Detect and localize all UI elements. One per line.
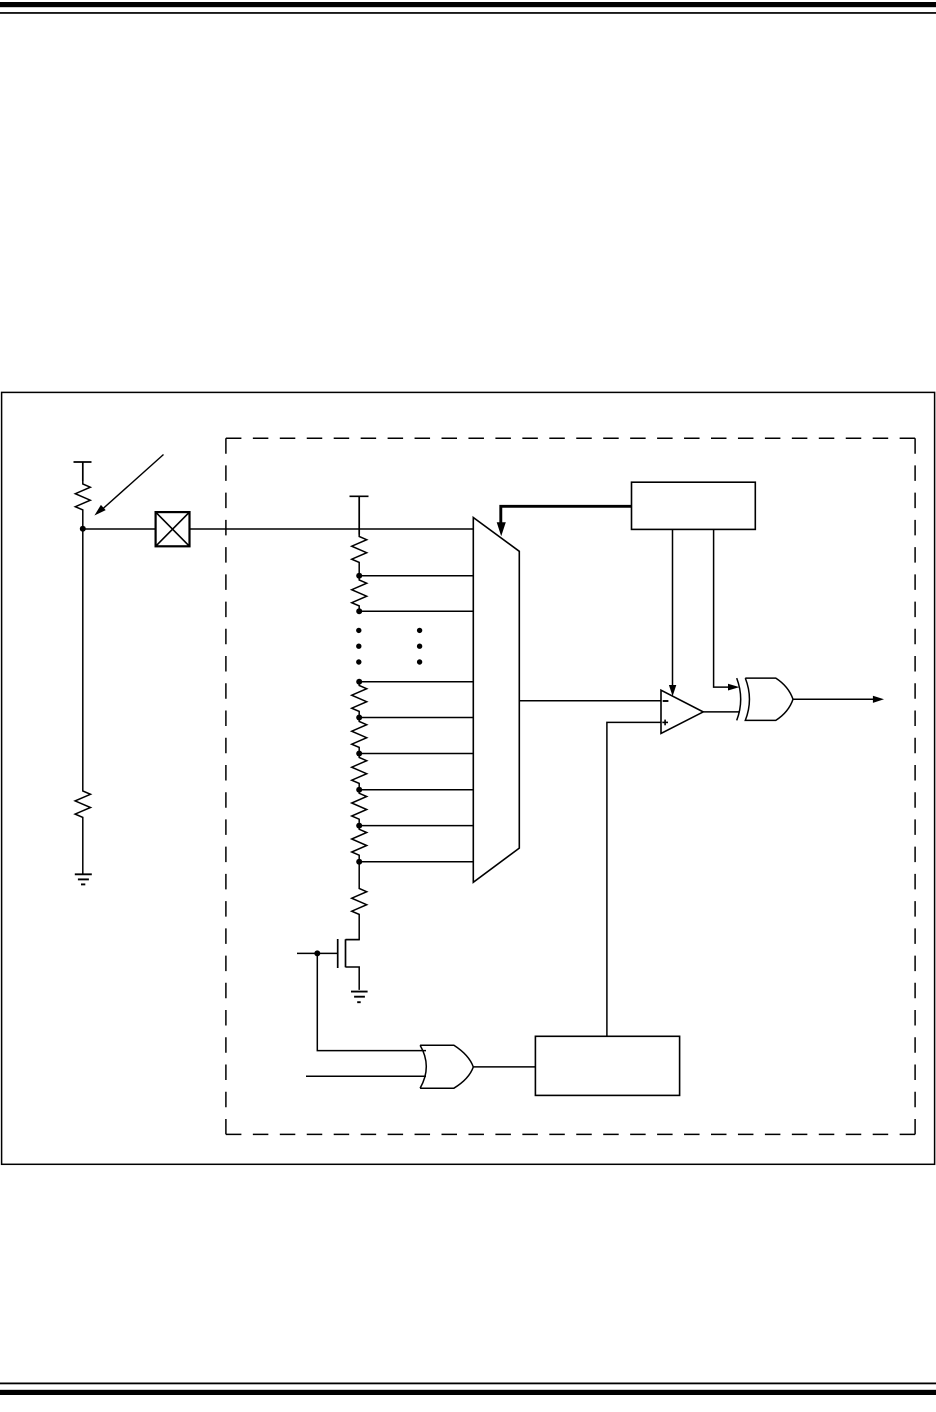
wire gate node down to or-gate input [317,953,426,1050]
or gate U5 body [420,1045,473,1088]
resistor R3 (ladder top 8R) [352,535,367,574]
figure outer border [2,392,935,1164]
annotation arrow pointing to node A [94,455,163,516]
wire tap 3 to mux [359,681,473,683]
pad X1 (I/O pin, crossed square) [156,512,190,546]
resistor R8 (ladder) [352,790,367,823]
wire R2 to ground [82,819,84,874]
node B (tap 1) [356,573,362,579]
node A (external pin junction) [80,526,86,532]
resistor R5 (ladder) [352,682,367,715]
node J (gate junction) [314,950,320,956]
wire tap 1 to mux [359,575,473,577]
resistor R1 (external pull-up) [75,481,90,511]
control register box U2 [632,482,756,529]
wire or output to enable box [473,1066,535,1068]
page footer thick rule [0,1390,936,1395]
wire tap 4 to mux [359,717,473,719]
wire U2 output 2 down and right to xor [714,529,729,687]
wire R1 to node A [82,511,84,529]
xor gate U4 input arc [737,678,741,720]
arrowhead select into mux [497,522,506,536]
wire tap 2 to mux [359,610,473,612]
resistor R4 (ladder) [352,579,367,609]
resistor R2 (external pull-down) [75,788,90,819]
mux select wire (thick) from control register [501,506,632,526]
arrowhead into comparator top [669,685,676,696]
minus sign label [663,700,669,702]
wire node A down to R2 [82,529,84,788]
wire tap 5 to mux [359,753,473,755]
terminal T1 (top-left supply stub) [74,462,92,481]
enable logic box U6 [535,1036,679,1095]
plus sign label [662,720,668,726]
wire R10 to transistor drain [346,916,360,940]
node C (tap 2) [356,608,362,614]
comparator U3 triangle [661,690,703,733]
ellipsis dots mux column [417,628,422,665]
wire xor output [793,698,873,700]
wire node A to pad [83,528,156,530]
ellipsis dots ladder column [356,628,361,665]
node I (tap 8, ladder bottom) [356,859,362,865]
page header thin rule [0,12,936,14]
mux U1 (analog multiplexer trapezoid) [473,518,519,883]
wire tap 8 to mux [359,861,473,863]
node D (tap 3) [356,679,362,685]
resistor R9 (ladder) [352,826,367,859]
resistor R6 (ladder) [352,718,367,751]
transistor Q1 (NMOS) [338,939,360,990]
ground GND1 (external) [75,874,92,884]
wire tap 6 to mux [359,789,473,791]
wire plus input from below [607,722,661,1036]
resistor R7 (ladder) [352,754,367,788]
wire or-gate lower input stub [306,1075,426,1077]
or gate U5 back arc [420,1045,426,1088]
ground GND2 (transistor source) [351,992,368,1003]
resistor R10 (ladder bottom 8R) [352,888,367,916]
terminal T2 (ladder top supply stub) [350,496,369,534]
xor gate U4 body [745,678,793,720]
node H (tap 7) [356,823,362,829]
arrowhead xor output [873,696,884,703]
wire ladder bottom to R10 [358,862,360,888]
arrowhead into xor input [728,684,739,691]
transistor Q1 gate wire stub [297,952,337,954]
wire U2 output 1 down to comparator [672,529,674,686]
node E (tap 4) [356,715,362,721]
dashed module boundary box [226,438,915,1134]
node G (tap 6) [356,787,362,793]
wire comparator output to xor [703,711,740,713]
wire pad to mux input 0 [190,528,474,530]
page footer thin rule [0,1383,936,1385]
page header thick rule [0,2,936,7]
node F (tap 5) [356,751,362,757]
wire mux output to comparator minus input [519,700,661,702]
wire tap 7 to mux [359,825,473,827]
